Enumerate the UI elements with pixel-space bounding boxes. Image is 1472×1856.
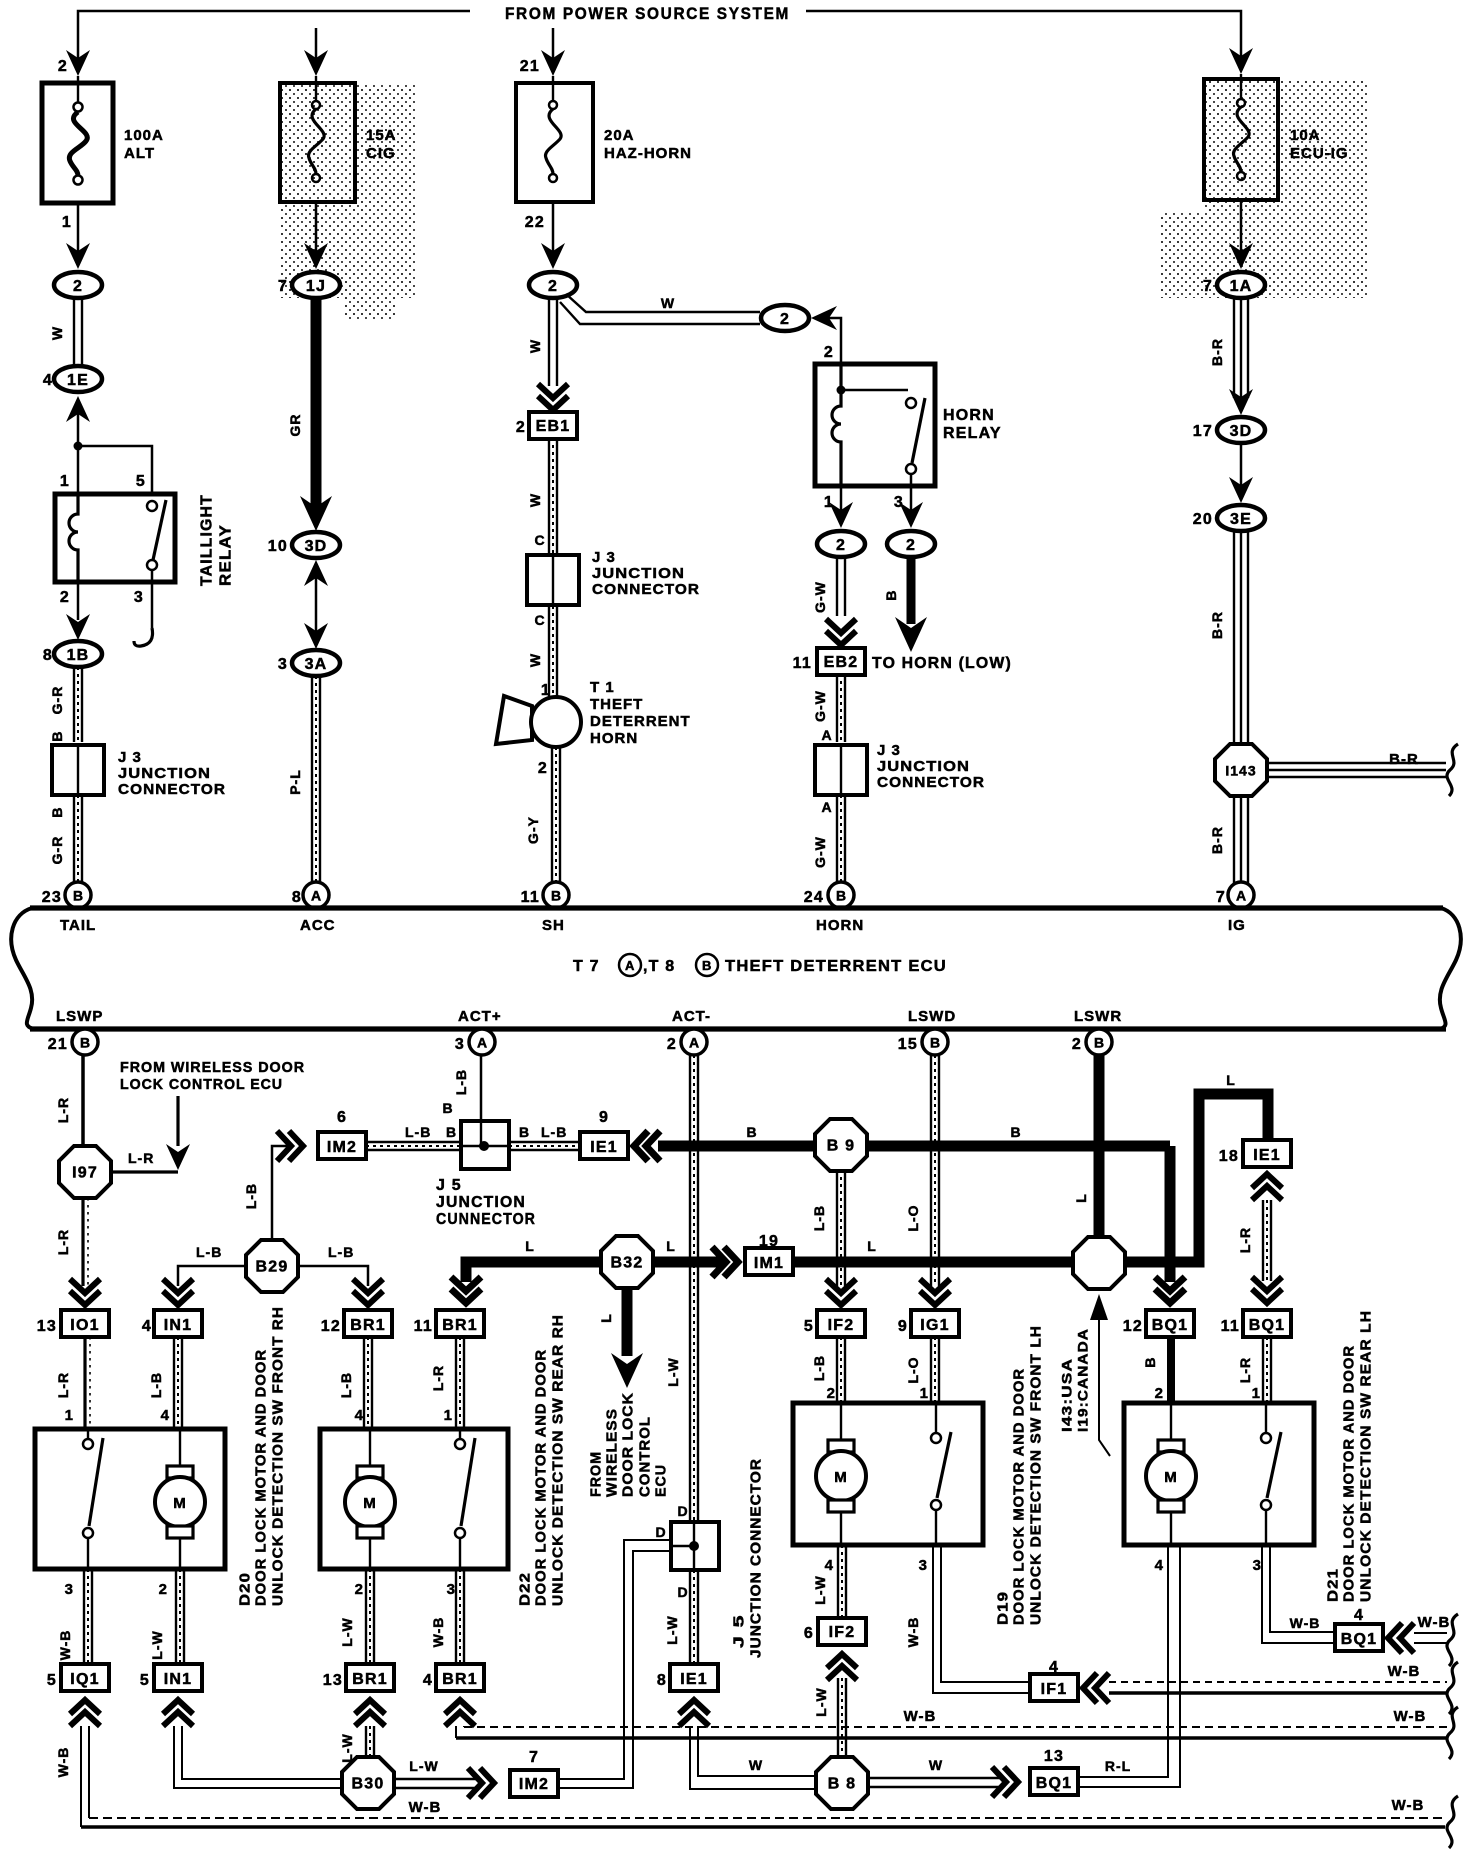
svg-text:12: 12 <box>321 1318 341 1335</box>
svg-text:CUNNECTOR: CUNNECTOR <box>436 1211 536 1228</box>
svg-text:L: L <box>666 1238 676 1254</box>
svg-text:ALT: ALT <box>124 145 155 162</box>
svg-text:3: 3 <box>134 589 144 606</box>
svg-text:L-B: L-B <box>328 1244 354 1260</box>
svg-text:4: 4 <box>355 1407 364 1424</box>
svg-text:6: 6 <box>337 1109 347 1126</box>
continuation squiggle BQ1 W-B <box>1447 1614 1458 1666</box>
svg-text:LOCK CONTROL ECU: LOCK CONTROL ECU <box>120 1076 283 1093</box>
svg-text:I97: I97 <box>72 1165 98 1182</box>
wire from wireless door lock control ECU <box>176 1096 179 1146</box>
arrow into fuse ALT <box>66 50 90 76</box>
svg-text:B: B <box>1010 1124 1021 1140</box>
svg-text:L-R: L-R <box>128 1150 154 1166</box>
svg-text:L-B: L-B <box>405 1124 431 1140</box>
wire L-R IO1 to door lock D20 pin 1 <box>83 1337 86 1430</box>
svg-text:W: W <box>661 295 675 311</box>
svg-text:UNLOCK DETECTION SW REAR RH: UNLOCK DETECTION SW REAR RH <box>550 1314 567 1606</box>
svg-text:20A: 20A <box>604 127 635 144</box>
junction node at taillight relay feed <box>74 442 83 451</box>
svg-text:DOOR LOCK MOTOR AND DOOR: DOOR LOCK MOTOR AND DOOR <box>1341 1345 1358 1602</box>
svg-text:JUNCTION: JUNCTION <box>592 565 685 582</box>
svg-text:W-B: W-B <box>55 1747 71 1778</box>
wire G-Y horn to ECU pin SH <box>552 747 560 884</box>
svg-text:B-R: B-R <box>1209 611 1225 639</box>
svg-text:LSWD: LSWD <box>908 1008 956 1025</box>
connector IN1 pin 4 <box>154 1310 202 1337</box>
svg-text:I143: I143 <box>1225 763 1256 779</box>
connector IG1 pin 9 <box>911 1310 959 1337</box>
svg-text:W-B: W-B <box>1392 1797 1425 1814</box>
svg-text:10: 10 <box>268 538 288 555</box>
svg-text:D: D <box>677 1584 688 1600</box>
svg-text:ECU: ECU <box>653 1464 670 1497</box>
connector BR1 pin 11 <box>436 1310 484 1337</box>
svg-text:A: A <box>625 958 635 973</box>
svg-text:1: 1 <box>62 214 72 231</box>
wire L-B/B IM2 to J5 <box>366 1142 461 1150</box>
svg-text:4: 4 <box>423 1672 433 1689</box>
svg-text:M: M <box>834 1469 848 1486</box>
junction connector J3 (SH column) <box>527 555 579 605</box>
svg-text:W-B: W-B <box>905 1617 921 1648</box>
connector octagon I97 <box>59 1146 111 1198</box>
svg-text:BR1: BR1 <box>442 1671 478 1688</box>
svg-text:L-R: L-R <box>1237 1357 1253 1383</box>
svg-text:L-O: L-O <box>905 1204 921 1231</box>
arrow into connector 2 (pin1) <box>829 502 853 528</box>
svg-text:JUNCTION: JUNCTION <box>877 758 970 775</box>
wire B/G-R from J3 to ECU pin TAIL <box>74 795 82 884</box>
svg-text:L-W: L-W <box>812 1575 828 1604</box>
svg-text:2: 2 <box>1072 1036 1082 1053</box>
wire: FROM POWER SOURCE SYSTEM rail (right half) <box>806 11 1241 58</box>
svg-text:M: M <box>173 1495 187 1512</box>
svg-text:IM2: IM2 <box>327 1139 357 1156</box>
wire relay pin 1 down <box>840 486 843 510</box>
D19 door lock motor M <box>816 1403 866 1545</box>
svg-text:BR1: BR1 <box>350 1317 386 1334</box>
svg-text:G-W: G-W <box>812 581 828 613</box>
svg-text:A: A <box>1236 888 1246 904</box>
svg-text:IN1: IN1 <box>164 1317 193 1334</box>
svg-text:J 3: J 3 <box>877 742 901 759</box>
svg-text:IF1: IF1 <box>1041 1681 1068 1698</box>
wire L (thick) B32 to BR1(11) <box>466 1262 601 1282</box>
svg-text:B-R: B-R <box>1209 826 1225 854</box>
svg-text:L-B: L-B <box>243 1183 259 1209</box>
svg-text:2: 2 <box>516 419 526 436</box>
svg-text:L-B: L-B <box>338 1372 354 1398</box>
connector oval 2 (relay pin 1) <box>817 531 865 557</box>
ECU band: T7/T8 THEFT DETERRENT ECU <box>30 905 1443 910</box>
svg-text:IG: IG <box>1228 917 1246 934</box>
wire 1E to taillight relay node <box>77 414 80 494</box>
svg-text:B32: B32 <box>611 1255 644 1272</box>
svg-text:CONTROL: CONTROL <box>637 1416 654 1497</box>
connector IO1 pin 13 <box>61 1310 109 1337</box>
svg-text:L-W: L-W <box>665 1357 681 1386</box>
svg-text:B-R: B-R <box>1209 338 1225 366</box>
arrow into fuse CIG <box>304 50 328 76</box>
svg-text:2: 2 <box>906 537 916 554</box>
svg-text:1: 1 <box>444 1407 453 1424</box>
svg-text:11: 11 <box>414 1318 433 1335</box>
svg-text:JUNCTION: JUNCTION <box>436 1194 526 1211</box>
svg-text:L-R: L-R <box>55 1372 71 1398</box>
connector octagon B30 <box>342 1757 394 1809</box>
svg-text:G-Y: G-Y <box>525 816 541 844</box>
svg-text:TAIL: TAIL <box>60 917 96 934</box>
svg-text:J 5: J 5 <box>436 1177 462 1194</box>
svg-text:L-B: L-B <box>196 1244 222 1260</box>
connector oval 3D pin 10 <box>268 532 340 558</box>
svg-text:W-B: W-B <box>409 1799 442 1816</box>
connector oval 2 (relay pin 3) <box>887 531 935 557</box>
chevron up into BR1(4) <box>445 1700 475 1726</box>
svg-text:W-B: W-B <box>904 1708 937 1725</box>
connector IE1 pin 8 <box>670 1664 718 1691</box>
door lock D22 box <box>320 1429 508 1569</box>
svg-text:BQ1: BQ1 <box>1036 1775 1073 1792</box>
svg-text:FROM: FROM <box>588 1451 605 1497</box>
svg-text:G-W: G-W <box>812 836 828 868</box>
svg-text:B: B <box>1142 1356 1158 1367</box>
wire stub into CIG fuse <box>315 28 318 60</box>
svg-text:C: C <box>534 612 545 628</box>
svg-text:IM2: IM2 <box>519 1776 549 1793</box>
chevron into BQ1(13) <box>992 1767 1018 1797</box>
wire B-R (triple) I143 to ECU pin IG <box>1234 796 1248 884</box>
svg-text:J 3: J 3 <box>592 549 616 566</box>
fuse 10A ECU-IG <box>1204 74 1278 200</box>
wire W/C from EB1 to J3 to horn T1 <box>549 438 557 745</box>
svg-text:,T 8: ,T 8 <box>643 958 675 975</box>
svg-text:W-B: W-B <box>1290 1615 1321 1631</box>
svg-text:7: 7 <box>278 278 288 295</box>
wire L (thick) octagon to IE1(18) <box>1124 1094 1268 1262</box>
door lock D21 box <box>1124 1403 1314 1545</box>
horn T1 THEFT DETERRENT HORN <box>496 696 581 747</box>
wire W-B BQ1(4) to right edge <box>1414 1632 1447 1634</box>
svg-text:HORN: HORN <box>943 407 995 424</box>
svg-text:7: 7 <box>1216 889 1226 906</box>
svg-text:DETERRENT: DETERRENT <box>590 713 691 730</box>
arrow up into connector 1E <box>66 396 90 422</box>
ECU pin 3 A (ACT+) <box>469 1029 495 1055</box>
chevron into IO1 <box>70 1279 100 1305</box>
D19 unlock detection switch <box>931 1403 951 1545</box>
connector IE1 pin 18 <box>1243 1140 1291 1167</box>
svg-text:23: 23 <box>42 889 62 906</box>
svg-text:13: 13 <box>37 1318 57 1335</box>
svg-text:HORN: HORN <box>816 917 864 934</box>
connector octagon B9 <box>815 1119 867 1171</box>
svg-text:1: 1 <box>1252 1385 1261 1402</box>
svg-text:IM1: IM1 <box>754 1255 784 1272</box>
taillight relay switch contact <box>147 500 166 582</box>
svg-text:L-R: L-R <box>1237 1227 1253 1253</box>
wire L-B BR1 to D22 pin 4 <box>364 1337 372 1430</box>
ECU pin 15 B (LSWD) <box>922 1029 948 1055</box>
chevron up into IO1(5) <box>70 1700 100 1726</box>
svg-text:IF2: IF2 <box>829 1624 856 1641</box>
svg-text:W: W <box>527 493 543 507</box>
wire from fuse HAZ-HORN to connector 2 <box>552 202 555 252</box>
chevron into BQ1(12) <box>1155 1277 1185 1303</box>
wire L-W BR1(13) to B30 <box>366 1726 374 1758</box>
wire L-O LSWD to IG1 <box>931 1055 939 1286</box>
wire B/L-B J5 to IE1(9) <box>509 1142 580 1150</box>
svg-text:3: 3 <box>65 1581 74 1598</box>
svg-text:4: 4 <box>43 372 53 389</box>
wire node to relay pin 5 <box>78 446 152 494</box>
wire G-W to EB2 <box>837 557 845 616</box>
connector oval 3A pin 3 <box>278 650 340 676</box>
svg-text:9: 9 <box>898 1318 908 1335</box>
svg-text:R-L: R-L <box>1105 1758 1131 1774</box>
connector oval 1A pin 7 <box>1203 272 1265 298</box>
svg-text:22: 22 <box>525 214 545 231</box>
svg-text:RELAY: RELAY <box>218 524 235 586</box>
svg-text:8: 8 <box>292 889 302 906</box>
wire L (thick) IM1 to octagon <box>793 1257 1074 1268</box>
svg-text:DOOR LOCK MOTOR AND DOOR: DOOR LOCK MOTOR AND DOOR <box>533 1349 550 1606</box>
wire relay pin 3 open end <box>151 582 154 628</box>
ECU pin 23 B (TAIL) <box>65 882 91 908</box>
wire I97 to wireless branch <box>110 1170 178 1173</box>
wire L-W IM2(7) up to J5 lower <box>558 1540 671 1779</box>
chevron into IM1(19) <box>712 1247 738 1277</box>
svg-text:IE1: IE1 <box>590 1139 618 1156</box>
connector octagon I143 <box>1215 744 1267 796</box>
svg-text:WIRELESS: WIRELESS <box>604 1408 621 1497</box>
svg-text:1B: 1B <box>67 647 90 664</box>
svg-text:UNLOCK DETECTION SW REAR LH: UNLOCK DETECTION SW REAR LH <box>1358 1310 1375 1602</box>
ECU pin 2 B (LSWR) <box>1086 1029 1112 1055</box>
svg-text:IE1: IE1 <box>680 1671 708 1688</box>
svg-text:21: 21 <box>520 58 540 75</box>
wire G-R/B from 1B to J3 <box>74 667 82 742</box>
connector BQ1 pin 13 <box>1030 1768 1078 1795</box>
svg-text:W-B: W-B <box>57 1630 73 1661</box>
wire L-W D20 pin2 to IN1(5) <box>176 1569 184 1662</box>
wire W-B IF1 to right edge <box>1109 1681 1447 1683</box>
dither shading around ECU-IG fuse <box>1205 81 1367 298</box>
connector oval 2 (HAZ-HORN) <box>529 272 577 298</box>
svg-text:W-B: W-B <box>1388 1663 1421 1680</box>
connector IF1 pin 4 <box>1030 1674 1078 1701</box>
connector IF2 pin 6 <box>818 1618 866 1645</box>
chevron into IF1 <box>1083 1673 1109 1703</box>
connector oval 3E pin 20 <box>1193 505 1265 531</box>
wire L-B B9 to IF2(5) <box>837 1170 845 1286</box>
connector IN1 pin 5 <box>154 1664 202 1691</box>
svg-text:3: 3 <box>278 656 288 673</box>
door lock D20 box <box>35 1429 225 1569</box>
connector IO1 pin 5 <box>61 1664 109 1691</box>
ECU pin 7 A (IG) <box>1228 882 1254 908</box>
svg-text:2: 2 <box>58 58 68 75</box>
ECU pin 24 B (HORN) <box>828 882 854 908</box>
svg-text:L-W: L-W <box>664 1615 680 1644</box>
svg-text:I43:USA: I43:USA <box>1059 1358 1075 1432</box>
svg-text:11: 11 <box>793 655 812 672</box>
svg-text:1: 1 <box>920 1385 929 1402</box>
svg-text:CONNECTOR: CONNECTOR <box>877 774 985 791</box>
D21 door lock motor M <box>1146 1403 1196 1545</box>
svg-text:5: 5 <box>136 473 146 490</box>
svg-text:19: 19 <box>759 1233 779 1250</box>
junction connector J5 (lower) <box>671 1522 719 1570</box>
door lock D19 box <box>793 1403 983 1545</box>
svg-text:T 1: T 1 <box>590 679 615 696</box>
wire W connector 2 to 1E <box>74 298 82 366</box>
connector oval 1B pin 8 <box>43 641 102 667</box>
svg-text:L-R: L-R <box>55 1229 71 1255</box>
svg-text:CONNECTOR: CONNECTOR <box>592 581 700 598</box>
svg-text:2: 2 <box>73 278 83 295</box>
svg-text:I19:CANADA: I19:CANADA <box>1075 1328 1091 1432</box>
chevron into IM2(7) <box>468 1768 494 1798</box>
fuse 20A HAZ-HORN <box>516 76 593 202</box>
svg-text:B30: B30 <box>352 1776 385 1793</box>
svg-text:3D: 3D <box>305 538 328 555</box>
svg-text:L-W: L-W <box>339 1733 355 1762</box>
svg-text:B 8: B 8 <box>828 1776 857 1793</box>
wire L-B IN1 to D20 pin 4 <box>174 1337 182 1430</box>
arrow into connector 3D (IG) <box>1229 389 1253 415</box>
wire fuse ECU-IG to 1A <box>1240 200 1243 252</box>
svg-text:1E: 1E <box>67 372 89 389</box>
svg-text:4: 4 <box>161 1407 170 1424</box>
svg-text:4: 4 <box>142 1318 152 1335</box>
svg-text:BQ1: BQ1 <box>1341 1631 1378 1648</box>
relay pin 3 pigtail hook <box>134 628 153 646</box>
connector BR1 pin 12 <box>344 1310 392 1337</box>
wire L (thick) B32 to IM1 <box>653 1257 722 1268</box>
svg-text:13: 13 <box>1044 1748 1064 1765</box>
svg-text:G-R: G-R <box>49 836 65 865</box>
wire L-B ACT+ down to J5 <box>480 1055 483 1143</box>
wire B-R (triple) I143 to right edge <box>1266 763 1446 777</box>
connector octagon I43 USA / I19 CANADA (blank) <box>1073 1237 1125 1289</box>
B32 octagon stem (thick) down to wireless door lock control <box>622 1288 633 1356</box>
connector octagon B8 <box>816 1757 868 1809</box>
arrow into connector 1J <box>304 243 328 269</box>
svg-text:C: C <box>534 532 545 548</box>
arrow into connector 2 from relay <box>811 306 837 330</box>
svg-text:BR1: BR1 <box>352 1671 388 1688</box>
leader arrowhead <box>1090 1294 1108 1320</box>
arrow into connector 1A <box>1229 243 1253 269</box>
svg-text:DOOR LOCK MOTOR AND DOOR: DOOR LOCK MOTOR AND DOOR <box>253 1349 270 1606</box>
ECU pin 21 B (LSWP) <box>72 1029 98 1055</box>
svg-text:B: B <box>702 958 712 973</box>
svg-text:4: 4 <box>825 1557 834 1574</box>
svg-text:D19: D19 <box>995 1591 1012 1625</box>
connector IM2 pin 6 <box>318 1132 366 1159</box>
svg-text:11: 11 <box>521 889 540 906</box>
dither shading around CIG fuse <box>281 85 417 298</box>
wire L-R I97 to IO1 <box>81 1198 84 1286</box>
svg-text:HAZ-HORN: HAZ-HORN <box>604 145 692 162</box>
svg-text:15: 15 <box>898 1036 918 1053</box>
wire L-W B30 to IM2(7) <box>394 1779 478 1788</box>
D21 unlock detection switch <box>1261 1403 1281 1545</box>
svg-text:6: 6 <box>804 1625 814 1642</box>
arrow into connector 2 <box>66 243 90 269</box>
wire L (thick) LSWR down to octagon <box>1094 1055 1105 1240</box>
svg-text:IG1: IG1 <box>920 1317 949 1334</box>
wire L-W IN1(5) to B30 <box>174 1726 343 1788</box>
svg-text:L: L <box>598 1313 614 1323</box>
svg-text:B 9: B 9 <box>827 1138 856 1155</box>
chevron into IM2(6) <box>277 1131 303 1161</box>
wire W-B D19 pin3 to IF1 <box>941 1545 1030 1682</box>
continuation squiggle B-R <box>1447 744 1458 796</box>
continuation squiggle bottom bus <box>1447 1796 1458 1848</box>
wire L-W D19 pin4 to IF2(6) <box>838 1545 846 1618</box>
arrow into connector 3E <box>1229 477 1253 503</box>
wire W-B D21 pin3 to BQ1(4) <box>1270 1545 1335 1632</box>
arrow into connector 3A <box>304 623 328 649</box>
svg-text:W: W <box>527 653 543 667</box>
svg-text:7: 7 <box>1203 278 1213 295</box>
wire from horn relay pin 2 to connector 2 <box>828 318 841 364</box>
wire W-B IO1(5) down to ground bus <box>80 1726 82 1827</box>
chevron into BR1(12) <box>353 1279 383 1305</box>
svg-text:EB2: EB2 <box>824 654 859 671</box>
ECU pin 11 B (SH) <box>543 882 569 908</box>
wire stub into HAZ-HORN fuse <box>552 28 555 60</box>
wire B29 up to IM2(6) <box>272 1146 288 1241</box>
svg-text:2: 2 <box>836 537 846 554</box>
svg-text:BQ1: BQ1 <box>1152 1317 1189 1334</box>
svg-text:W: W <box>929 1757 943 1773</box>
svg-text:3: 3 <box>1253 1557 1262 1574</box>
wire: FROM POWER SOURCE SYSTEM rail (left half) <box>78 11 470 62</box>
svg-text:A: A <box>311 888 321 904</box>
svg-text:SH: SH <box>542 917 565 934</box>
svg-text:1A: 1A <box>1230 278 1253 295</box>
svg-text:L-B: L-B <box>453 1069 469 1095</box>
svg-text:W: W <box>49 326 65 340</box>
svg-text:G-W: G-W <box>812 690 828 722</box>
wire B (thick) IE1(9) to B9 to corner <box>658 1141 1170 1152</box>
svg-text:W-B: W-B <box>1418 1614 1451 1631</box>
connector oval 1J pin 7 <box>278 272 340 298</box>
svg-text:12: 12 <box>1123 1318 1143 1335</box>
wire B (thick) BQ1(12) to D21 pin 2 <box>1167 1337 1175 1403</box>
svg-text:D: D <box>655 1524 666 1540</box>
arrow into connector 2 (pin3) <box>899 502 923 528</box>
connector octagon B29 <box>246 1240 298 1292</box>
svg-text:IQ1: IQ1 <box>70 1671 99 1688</box>
connector BQ1 pin 11 <box>1243 1310 1291 1337</box>
svg-text:DOOR LOCK: DOOR LOCK <box>620 1392 637 1497</box>
svg-text:A: A <box>821 727 832 743</box>
connector EB1 pin 2 <box>529 412 577 439</box>
connector IM1 pin 19 <box>745 1248 793 1275</box>
chevron into IN1(4) <box>163 1279 193 1305</box>
relay: TAILLIGHT RELAY box <box>55 494 175 582</box>
svg-text:G-R: G-R <box>49 686 65 715</box>
svg-text:FROM POWER SOURCE SYSTEM: FROM POWER SOURCE SYSTEM <box>505 4 790 23</box>
svg-text:B: B <box>519 1124 530 1140</box>
svg-text:18: 18 <box>1219 1148 1239 1165</box>
wire B (thick) to horn low <box>907 557 916 624</box>
